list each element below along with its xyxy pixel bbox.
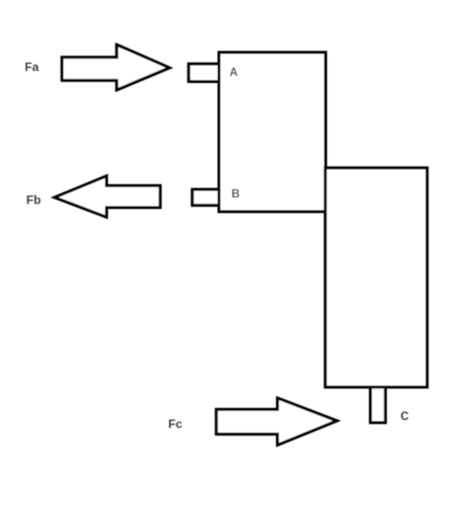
tab C: [370, 387, 385, 423]
svg-text:Fa: Fa: [25, 60, 39, 74]
svg-text:Fb: Fb: [26, 193, 41, 207]
tab B: [192, 189, 220, 205]
svg-text:Fc: Fc: [168, 417, 182, 431]
arrow Fc (points right): [216, 398, 337, 445]
arrow Fa (points right): [62, 45, 170, 90]
arrow Fb (points left): [55, 176, 161, 217]
svg-text:C: C: [401, 411, 409, 423]
block 1 (upper, with tabs A and B): [219, 52, 326, 211]
tab A: [189, 64, 220, 82]
block 2 (right, with tab C): [325, 168, 427, 387]
svg-text:B: B: [232, 189, 240, 201]
svg-text:A: A: [230, 67, 238, 79]
